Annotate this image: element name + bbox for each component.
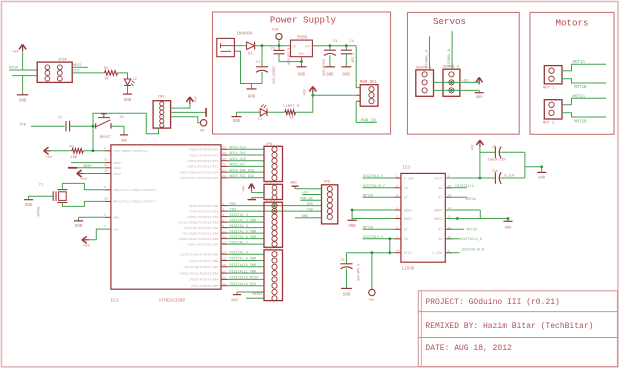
connector JP4 analog strip — [264, 146, 283, 181]
svg-text:0.1uF/50V: 0.1uF/50V — [287, 48, 291, 65]
net MOT2B to pin6 — [363, 228, 395, 230]
svg-text:MISO: MISO — [9, 67, 19, 71]
svg-text:16MHz: 16MHz — [38, 206, 42, 217]
svg-text:ADC2_D16: ADC2_D16 — [230, 158, 246, 162]
svg-text:GND: GND — [326, 74, 334, 78]
wire PWR SEL pin2 to +5V — [313, 94, 356, 96]
svg-text:+5V: +5V — [368, 299, 375, 303]
svg-text:100uF/25V: 100uF/25V — [322, 59, 326, 76]
svg-text:0.1uF/16V: 0.1uF/16V — [356, 264, 360, 281]
svg-text:Servos: Servos — [433, 16, 466, 27]
ground - power strip — [252, 197, 264, 199]
svg-text:MOT1A: MOT1A — [466, 198, 477, 202]
svg-text:GND: GND — [248, 96, 256, 100]
LED L1 power indicator — [260, 109, 267, 116]
svg-text:L1: L1 — [258, 118, 263, 122]
capacitor C1 100uF/25V — [261, 46, 263, 66]
svg-text:R2: R2 — [104, 67, 109, 71]
MCU IC1 ATMEGA328P — [111, 145, 221, 289]
svg-text:DIGITAL_9_PWM: DIGITAL_9_PWM — [230, 258, 256, 262]
wire serial +5V — [302, 194, 322, 196]
svg-text:3-4EN: 3-4EN — [432, 252, 442, 256]
svg-text:GND: GND — [290, 181, 298, 185]
capacitor C6 0.1uF — [346, 253, 348, 264]
capacitor C7 series DTR — [65, 121, 67, 131]
svg-text:SIGNAL_A: SIGNAL_A — [425, 49, 429, 68]
svg-text:(ADC2/PCINT10)PC2: (ADC2/PCINT10)PC2 — [187, 159, 219, 163]
wire VCC1 rail — [347, 252, 395, 254]
+5V arrow servos — [476, 77, 479, 82]
svg-text:+5V: +5V — [243, 185, 247, 192]
svg-text:PB6(XTAL1/TOSC1/PCINT6): PB6(XTAL1/TOSC1/PCINT6) — [114, 188, 157, 192]
svg-text:(OC1A/PCINT1)PB1: (OC1A/PCINT1)PB1 — [189, 259, 219, 263]
capacitor C3 100uF/25V — [329, 44, 332, 47]
net MOT1A pin14 — [445, 196, 467, 198]
svg-text:+5V: +5V — [45, 156, 53, 160]
svg-text:PWR SEL: PWR SEL — [360, 81, 378, 85]
diode D1 1N4004 — [234, 45, 246, 47]
svg-text:MOT2A: MOT2A — [363, 194, 374, 198]
svg-text:MOT2B: MOT2B — [363, 226, 373, 230]
wire switch to ground — [111, 126, 124, 135]
svg-text:GND: GND — [233, 120, 241, 124]
svg-text:JP5: JP5 — [323, 181, 331, 185]
wire XTAL1 — [62, 183, 105, 189]
svg-text:1Y: 1Y — [404, 197, 408, 201]
svg-text:+5V: +5V — [302, 192, 309, 196]
+5V arrow power strip — [249, 184, 252, 189]
svg-text:(AIN1/PCINT23)PD7: (AIN1/PCINT23)PD7 — [187, 242, 219, 246]
svg-text:L2: L2 — [133, 78, 137, 82]
svg-text:1-2EN: 1-2EN — [404, 177, 414, 181]
svg-text:ADC3_D17: ADC3_D17 — [230, 164, 246, 168]
wire resistor to LED — [268, 111, 285, 113]
svg-text:MOT 1: MOT 1 — [543, 87, 555, 91]
svg-text:PB7(XTAL2/TOSC2/PCINT7): PB7(XTAL2/TOSC2/PCINT7) — [114, 200, 157, 204]
wire CN1 to RX circle — [171, 117, 201, 123]
svg-text:JP4: JP4 — [265, 143, 273, 147]
power supply section box — [213, 12, 391, 134]
ground - LED — [236, 112, 238, 116]
svg-text:DIGITAL13_SCK: DIGITAL13_SCK — [230, 283, 257, 287]
svg-text:IC3: IC3 — [402, 167, 410, 171]
svg-text:GND4: GND4 — [434, 209, 442, 213]
svg-text:RX: RX — [200, 130, 204, 134]
svg-text:ADC5_SCL_D19: ADC5_SCL_D19 — [230, 175, 254, 179]
svg-text:GND: GND — [25, 204, 33, 208]
svg-text:GND: GND — [19, 100, 27, 104]
wires out of ICSP right — [72, 66, 88, 68]
net DIGITAL10_F to pin2 — [363, 187, 395, 189]
svg-text:+5V: +5V — [304, 88, 308, 96]
svg-text:(MOSI/OC2A/PCINT3)PB3: (MOSI/OC2A/PCINT3)PB3 — [180, 271, 219, 275]
svg-text:MOT 2: MOT 2 — [543, 121, 555, 125]
svg-text:DIGITAL10_PWM: DIGITAL10_PWM — [230, 264, 256, 268]
svg-text:Y1: Y1 — [39, 183, 44, 187]
resistor R1 10K — [49, 150, 72, 152]
net DIGITAL12 pin15 — [445, 187, 467, 189]
switch S1 reset — [95, 123, 97, 128]
net MOT2B wire — [562, 113, 606, 117]
svg-text:(RXD/PCINT16)PD0: (RXD/PCINT16)PD0 — [189, 204, 219, 208]
junction reset net — [92, 125, 95, 128]
svg-text:C2: C2 — [271, 48, 275, 52]
resistor R2 1K — [105, 71, 118, 76]
ground - C6 — [341, 287, 352, 289]
+5V arrow CN1 — [186, 97, 190, 102]
svg-text:(MISO/PCINT4)PB4: (MISO/PCINT4)PB4 — [189, 278, 219, 282]
svg-text:(ADC4/SDA/PCINT12)PC4: (ADC4/SDA/PCINT12)PC4 — [180, 170, 219, 174]
svg-text:GND: GND — [298, 74, 306, 78]
resonator Y1 16MHz — [29, 195, 54, 197]
svg-text:DATE: AUG 18, 2012: DATE: AUG 18, 2012 — [425, 344, 512, 353]
connector JP2 digital strip 2 — [264, 250, 283, 301]
connector CN1 serial program header — [153, 101, 171, 128]
svg-text:7: 7 — [104, 225, 106, 228]
svg-text:ATMEGA328P: ATMEGA328P — [159, 299, 186, 304]
+5V output rail from regulator — [312, 45, 356, 47]
svg-text:DIGITAL12_MISO: DIGITAL12_MISO — [230, 277, 259, 281]
wire strip4 row8 — [246, 297, 264, 299]
svg-text:4Y: 4Y — [438, 197, 442, 201]
svg-text:(XCK/T0/PCINT20)PD4: (XCK/T0/PCINT20)PD4 — [183, 226, 218, 230]
svg-text:DIGITAL_8: DIGITAL_8 — [230, 251, 248, 255]
ground - LED2 — [127, 86, 129, 95]
analog net wires ADC0-ADC5 — [221, 148, 228, 150]
motor connector M1 — [544, 66, 562, 84]
svg-text:1: 1 — [104, 147, 106, 150]
regulator ground — [301, 57, 303, 62]
VIN terminal circle — [276, 33, 282, 39]
svg-text:RXD: RXD — [307, 203, 313, 207]
+5V arrow reset pullup — [44, 147, 49, 151]
svg-text:GND1: GND1 — [404, 209, 412, 213]
svg-text:MOT2A: MOT2A — [573, 95, 586, 99]
svg-text:22: 22 — [104, 164, 108, 167]
svg-text:Motors: Motors — [555, 18, 588, 29]
svg-text:TXD: TXD — [230, 208, 236, 212]
svg-text:9: 9 — [104, 186, 106, 189]
svg-text:VCC1: VCC1 — [404, 252, 412, 256]
svg-text:ADC1_D15: ADC1_D15 — [230, 152, 246, 156]
ground - L293D GND3/GND4 right — [445, 209, 480, 211]
svg-text:DTR: DTR — [20, 123, 28, 127]
svg-text:C9: C9 — [492, 145, 496, 149]
RX terminal circle — [200, 120, 206, 126]
svg-text:GND: GND — [538, 177, 546, 181]
wire servo +5V row — [434, 81, 476, 83]
svg-text:+5V: +5V — [83, 245, 91, 249]
net MOT2A wire — [562, 98, 606, 105]
svg-text:(ADC5/SCL/PCINT13)PC5: (ADC5/SCL/PCINT13)PC5 — [180, 176, 219, 180]
svg-text:JP2: JP2 — [265, 247, 273, 251]
capacitor C2 — [278, 46, 280, 50]
net MOT1A wire — [562, 64, 606, 71]
svg-text:GND: GND — [343, 293, 351, 297]
svg-text:Power Supply: Power Supply — [270, 15, 337, 26]
svg-text:20: 20 — [104, 170, 108, 173]
net DIGITAL10_B pin9 — [445, 252, 459, 254]
ground - servos — [478, 90, 480, 92]
svg-text:C3: C3 — [333, 40, 337, 44]
connector ICSP — [37, 62, 72, 82]
svg-text:DIGITAL11_PWM: DIGITAL11_PWM — [230, 270, 256, 274]
svg-text:DIGITAL_3_PWM: DIGITAL_3_PWM — [230, 219, 256, 223]
svg-text:(INT0/PCINT18)PD2: (INT0/PCINT18)PD2 — [187, 215, 219, 219]
wire CN1 TX terminator — [171, 111, 206, 113]
ground - MCU GND pin — [79, 216, 105, 218]
svg-text:C6: C6 — [341, 259, 345, 263]
wire resistor to LED2 — [118, 73, 128, 79]
net MOT1B pin11 — [445, 228, 464, 230]
svg-text:DIGITAL_4: DIGITAL_4 — [230, 225, 248, 229]
digital 8-13 net wires — [221, 253, 228, 255]
svg-text:1N4004: 1N4004 — [236, 31, 253, 37]
svg-text:VCC: VCC — [114, 227, 120, 231]
svg-text:(ADC3/PCINT11)PC3: (ADC3/PCINT11)PC3 — [187, 165, 219, 169]
svg-text:MOSI: MOSI — [73, 64, 81, 68]
wire rail down to PWR SEL pin 1 — [356, 46, 360, 88]
ground - L293D GND1/GND2 left — [352, 209, 394, 211]
svg-text:DIGITAL10_F: DIGITAL10_F — [363, 185, 385, 189]
motors section box — [530, 12, 614, 134]
+5V arrow ICSP — [19, 45, 23, 50]
wire diode to regulator — [255, 45, 291, 47]
svg-text:GND: GND — [348, 225, 356, 229]
svg-text:TXD: TXD — [307, 208, 313, 212]
svg-text:+5V: +5V — [472, 144, 476, 151]
svg-text:GND: GND — [505, 227, 513, 231]
svg-text:JP3: JP3 — [265, 181, 273, 185]
svg-text:ADC0_D14: ADC0_D14 — [230, 147, 246, 151]
svg-text:(ADC1/PCINT9)PC1: (ADC1/PCINT9)PC1 — [189, 153, 219, 157]
capacitor C9 100uF/16V bypass — [480, 151, 495, 153]
voltage regulator IC2 7805 — [291, 40, 313, 57]
net SIGNAL_A vertical — [429, 36, 431, 70]
L293D pin stubs — [394, 177, 401, 179]
motor driver IC3 L293D — [401, 173, 445, 262]
svg-text:OUT: OUT — [305, 45, 311, 49]
svg-text:RESET: RESET — [100, 136, 112, 140]
junction C1 — [261, 44, 264, 47]
svg-text:S1: S1 — [120, 116, 125, 120]
svg-text:SIGNAL_B: SIGNAL_B — [448, 48, 452, 67]
svg-text:8: 8 — [104, 213, 106, 216]
connector PWR SEL — [360, 85, 378, 107]
svg-text:MOT1A: MOT1A — [573, 61, 586, 65]
svg-text:IN: IN — [292, 45, 296, 49]
svg-text:IC1: IC1 — [111, 299, 119, 304]
svg-text:GND: GND — [343, 74, 351, 78]
ground - ICSP — [17, 94, 28, 96]
svg-text:AREF: AREF — [83, 165, 93, 169]
svg-text:C7: C7 — [58, 117, 62, 121]
svg-text:21: 21 — [104, 159, 108, 162]
wire CN1 DTR path to reset — [93, 113, 159, 134]
svg-text:MOT1B: MOT1B — [574, 86, 587, 90]
ground - resonator — [28, 196, 30, 200]
svg-text:GND: GND — [121, 140, 127, 144]
net MOT1B wire — [562, 79, 606, 83]
wire CN1 to +5V — [171, 103, 190, 109]
svg-text:(INT1/OC2B/PCINT19)PD3: (INT1/OC2B/PCINT19)PD3 — [178, 220, 219, 224]
+5V arrow AVCC — [83, 173, 105, 175]
net DIGITAL9_E to pin1 — [363, 177, 395, 179]
connector JP1 digital strip — [264, 202, 283, 247]
+5V circle terminal — [371, 253, 373, 290]
svg-text:(SS/OC1B/PCINT2)PB2: (SS/OC1B/PCINT2)PB2 — [183, 265, 218, 269]
ground - VCC2 bypass — [525, 166, 542, 168]
svg-text:GND: GND — [231, 299, 237, 303]
title block — [418, 291, 617, 367]
svg-text:DIGITAL_2: DIGITAL_2 — [230, 214, 248, 218]
connector JP5 serial header — [322, 185, 338, 224]
net PWR_IN from pin3 — [356, 101, 377, 122]
svg-text:DIGITAL10_B: DIGITAL10_B — [462, 248, 484, 252]
svg-text:(ICP1/CLKO/PCINT0)PB0: (ICP1/CLKO/PCINT0)PB0 — [180, 253, 219, 257]
ground - strip4 row7 — [237, 291, 264, 293]
VCC2 net right with +5V arrow — [445, 177, 480, 179]
svg-text:0.1uF: 0.1uF — [504, 175, 514, 179]
svg-text:GND: GND — [124, 99, 132, 103]
svg-text:VIN: VIN — [272, 29, 278, 33]
svg-text:GND2: GND2 — [404, 218, 412, 222]
svg-text:JP1: JP1 — [265, 199, 273, 203]
capacitor C4 0.1uF — [345, 44, 348, 47]
svg-text:GND: GND — [299, 52, 305, 56]
ground - jack/C1 — [252, 83, 263, 85]
svg-text:2Y: 2Y — [404, 229, 408, 233]
svg-text:PROJECT: GOduino III (r0.21): PROJECT: GOduino III (r0.21) — [425, 298, 559, 307]
net AREF — [71, 162, 105, 164]
+5V arrow MCU VCC — [88, 229, 111, 240]
LED L2 — [124, 79, 131, 85]
wire row2 into ICSP / ground drop — [12, 75, 37, 77]
svg-text:(TXD/PCINT17)PD1: (TXD/PCINT17)PD1 — [189, 209, 219, 213]
wire servo GND row — [434, 89, 480, 91]
wire reset to MCU pin 1 — [83, 150, 105, 152]
net MOT2A to pin3 — [363, 196, 395, 198]
svg-text:+5V: +5V — [12, 51, 20, 55]
svg-text:(SCK/PCINT5)PB5: (SCK/PCINT5)PB5 — [191, 284, 219, 288]
svg-text:DIGITAL9_E: DIGITAL9_E — [363, 175, 383, 179]
svg-text:GND: GND — [114, 216, 120, 220]
wire +5V to LED limit resistor — [296, 95, 313, 112]
wire LED to ground — [237, 111, 261, 113]
svg-text:+5V: +5V — [195, 96, 199, 103]
svg-text:DIGITAL12: DIGITAL12 — [456, 185, 474, 189]
wire XTAL2 — [62, 201, 105, 206]
svg-text:PWR_SW: PWR_SW — [300, 197, 313, 201]
svg-text:C4: C4 — [350, 40, 354, 44]
svg-text:CN1: CN1 — [158, 96, 166, 100]
svg-text:(T1/OC0B/PCINT21)PD5: (T1/OC0B/PCINT21)PD5 — [181, 231, 218, 235]
digital 0-7 net wires — [221, 205, 228, 207]
servo connector SERVO1 — [416, 70, 434, 96]
svg-text:GND: GND — [75, 225, 83, 229]
svg-text:RXD: RXD — [230, 203, 236, 207]
svg-text:AGND: AGND — [114, 166, 122, 170]
svg-text:SCK: SCK — [73, 70, 80, 74]
svg-text:ADC4_SDA_D18: ADC4_SDA_D18 — [230, 169, 254, 173]
net DIGITAL4 to pin7 — [363, 238, 395, 240]
svg-text:+5V: +5V — [462, 79, 470, 83]
svg-text:10: 10 — [104, 197, 108, 200]
DC jack J1 — [217, 38, 235, 56]
svg-text:+5V: +5V — [80, 178, 88, 182]
wire serial GND row6 — [295, 217, 322, 219]
net DIGITAL11_A pin10 — [445, 238, 459, 240]
svg-text:100uF/25V: 100uF/25V — [271, 66, 276, 85]
svg-text:(ADC0/PCINT8)PC0: (ADC0/PCINT8)PC0 — [189, 148, 219, 152]
wire serial PWR_SW — [300, 199, 321, 201]
svg-text:ICSP: ICSP — [58, 59, 68, 63]
ground - AGND pin — [77, 167, 105, 169]
svg-text:GND3: GND3 — [434, 218, 442, 222]
capacitor C10 0.1uF bypass — [524, 152, 526, 178]
svg-text:PWR_IN: PWR_IN — [361, 119, 377, 123]
svg-text:(AIN0/OC0A/PCINT22)PD6: (AIN0/OC0A/PCINT22)PD6 — [178, 237, 219, 241]
net SIGNAL_B vertical — [451, 31, 453, 69]
svg-text:3Y: 3Y — [438, 229, 442, 233]
svg-text:DIGITAL_6_PWM: DIGITAL_6_PWM — [230, 236, 256, 240]
connector JP3 power strip — [264, 184, 283, 199]
svg-text:C10: C10 — [492, 169, 498, 173]
servos section box — [407, 12, 519, 134]
motor connector M2 — [544, 100, 562, 119]
svg-text:AREF: AREF — [114, 161, 122, 165]
resistor R5 limit — [285, 110, 296, 115]
svg-text:REMIXED BY: Hazim Bitar (TechB: REMIXED BY: Hazim Bitar (TechBitar) — [425, 322, 593, 331]
svg-text:C1: C1 — [256, 61, 260, 65]
svg-text:100uF/16V: 100uF/16V — [488, 157, 507, 162]
svg-text:L293D: L293D — [402, 268, 415, 272]
svg-text:AVCC: AVCC — [114, 172, 122, 176]
+5V arrow power supply — [309, 87, 313, 92]
wire jack sleeve to ground rail — [234, 51, 262, 83]
svg-text:7805: 7805 — [297, 34, 308, 40]
svg-text:GND: GND — [476, 96, 484, 100]
svg-text:DIGITAL_5_PWM: DIGITAL_5_PWM — [230, 230, 256, 234]
servo connector SERVO2 — [443, 69, 460, 96]
svg-text:PC6(/RESET/PCINT14): PC6(/RESET/PCINT14) — [114, 149, 149, 153]
svg-text:10K: 10K — [70, 156, 78, 160]
svg-text:DIGITAL4_A: DIGITAL4_A — [363, 236, 384, 240]
svg-text:GND: GND — [302, 215, 308, 219]
svg-text:DIGITAL_7: DIGITAL_7 — [230, 241, 248, 245]
svg-text:DIGITAL11_A: DIGITAL11_A — [460, 238, 483, 242]
svg-text:RESET: RESET — [253, 293, 264, 297]
svg-text:MOT2B: MOT2B — [574, 120, 587, 124]
svg-text:LIMIT R: LIMIT R — [283, 105, 300, 109]
svg-text:D1: D1 — [248, 53, 253, 57]
svg-text:VCC2: VCC2 — [434, 177, 442, 181]
svg-text:MOT1B: MOT1B — [467, 229, 477, 233]
wire MISO row into ICSP — [9, 69, 37, 71]
svg-text:0.1uF: 0.1uF — [351, 53, 355, 63]
svg-text:R1: R1 — [70, 145, 75, 149]
